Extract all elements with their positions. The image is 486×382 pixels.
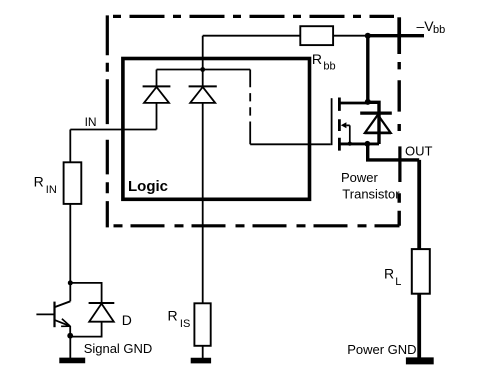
wire supply rail to R_bb [203,35,301,37]
wire R_IS to ground [202,346,204,359]
diode D1 anode triangle [144,87,169,103]
svg-text:–V: –V [417,18,435,34]
svg-text:Signal GND: Signal GND [84,341,153,356]
node body-source tie junction [348,142,352,146]
svg-text:OUT: OUT [405,144,433,159]
svg-text:D: D [122,312,132,328]
wire R_IN down to collector node [69,204,71,283]
node junction of diode cathodes [200,67,205,72]
svg-text:Logic: Logic [128,178,168,195]
transistor Q1 source line [339,142,379,145]
wire body tie to source [347,125,350,143]
wire IN horizontal into logic block [70,129,156,131]
body diode anode base line [365,131,392,134]
transistor Q2 base bar [53,302,55,328]
wire collector node to diode D [70,283,101,302]
svg-text:IN: IN [85,115,97,129]
svg-text:IN: IN [46,184,57,196]
wire emitter to Signal GND [69,337,71,358]
ground Power GND bar [406,357,434,364]
svg-text:R: R [312,51,322,67]
body diode anode triangle [365,115,391,133]
svg-text:IS: IS [180,318,190,330]
transistor Q2 npn collector wire [69,283,71,301]
wire diode D anode to emitter node [70,322,101,337]
svg-text:R: R [168,308,178,324]
ground Signal GND bar [59,358,85,364]
diode D2 anode triangle [190,87,215,103]
terminal OUT crossbar [398,146,401,182]
device boundary dash-dot box, right edge [398,62,401,226]
wire junction to -Vbb terminal [368,34,424,37]
node drain junction [365,99,371,105]
svg-text:Transistor: Transistor [342,186,400,201]
node source junction [365,141,371,147]
wire dashed gate-drive segment [249,70,251,145]
transistor Q2 base wire [36,313,53,315]
wire to gate of power transistor [250,143,331,145]
terminal -Vbb crossbar [397,17,401,54]
node junction on -Vbb rail [365,33,371,39]
transistor Q1 drain stub [339,102,367,105]
diode D anode triangle [89,304,114,322]
wire D1 cathode up [156,70,158,87]
node emitter junction [67,333,73,339]
wire logic output toward gate [203,69,251,71]
resistor R_IS body [194,303,210,346]
svg-text:Power: Power [341,170,379,185]
transistor Q2 emitter arrowhead [61,319,70,327]
device boundary dash-dot box, bottom edge [114,224,400,227]
transistor Q2 collector lead [55,301,70,307]
transistor Q1 channel contact bars [338,98,341,151]
transistor Q2 emitter lead [55,320,70,326]
svg-text:Power GND: Power GND [347,342,416,357]
resistor R_IN body [64,162,82,204]
wire IN node down to R_IN [69,130,71,163]
wire source to OUT terminal [368,144,420,160]
wire -Vbb junction down to drain node [366,36,369,102]
diode D cathode bar [89,302,115,304]
body diode of Q1, connecting wire [368,102,379,144]
node collector junction [68,280,73,285]
wire D2 anode down to R_IS [202,103,204,303]
wire IN riser to clamp diode D1 [156,103,158,130]
ground bar under R_IS [191,358,211,364]
resistor R_bb body [300,26,333,45]
svg-text:L: L [395,276,401,288]
op-amp n/a: transistor Q1 power MOSFET gate bar [331,98,333,145]
wire R_L down to Power GND [417,294,421,358]
diode D2 cathode bar [189,85,217,87]
wire R_bb to -Vbb junction [333,35,368,37]
device boundary dash-dot box, left edge [106,15,109,227]
resistor R_L body [412,249,430,294]
diode D1 cathode bar [143,85,171,87]
svg-text:bb: bb [323,60,335,72]
wire OUT down to R_L [417,160,421,249]
wire clamp diode D2 cathode up to supply rail [202,36,204,87]
device boundary dash-dot box, top edge [113,15,394,18]
logic block U1 box [123,59,310,200]
wire joining diode cathodes [157,69,203,71]
svg-text:bb: bb [433,24,445,36]
body diode cathode bar [360,111,392,114]
svg-text:R: R [34,173,44,189]
svg-text:R: R [384,266,394,282]
transistor Q1 body arrow [341,122,347,128]
wire emitter lead down [69,326,71,336]
